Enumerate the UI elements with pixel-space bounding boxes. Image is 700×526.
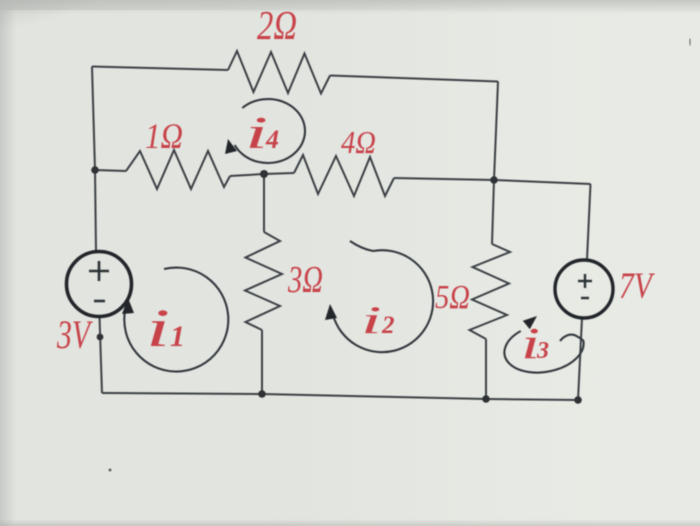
resistor R 3ohm zigzag <box>245 232 282 330</box>
resistor R 5ohm lead top <box>492 180 494 244</box>
wire top-right horizontal <box>330 76 498 82</box>
mesh loop i3 arrowhead <box>523 316 537 329</box>
label i1 <box>146 107 549 367</box>
svg-text:2: 2 <box>381 312 395 339</box>
svg-text:2Ω: 2Ω <box>257 2 297 48</box>
wire bottom <box>102 393 578 400</box>
voltage source V2 7V circle <box>555 260 613 318</box>
resistor R 3ohm lead bottom <box>261 330 263 394</box>
svg-text:i: i <box>146 298 170 358</box>
resistor R 5ohm lead bottom <box>485 339 487 399</box>
mesh loop i1 arrowhead <box>122 298 134 314</box>
mesh loop i3 arc <box>504 331 583 373</box>
speck top-right <box>689 38 691 46</box>
svg-text:i: i <box>361 298 382 341</box>
svg-text:3: 3 <box>536 338 549 364</box>
wire below 3V source <box>100 317 103 394</box>
svg-text:4Ω: 4Ω <box>341 124 376 160</box>
wire middle left stub <box>95 170 126 171</box>
resistor R 2ohm zigzag <box>228 51 330 94</box>
node junction right-middle <box>490 176 498 184</box>
node bottom center <box>258 390 266 398</box>
node junction left-middle <box>91 166 99 174</box>
node junction center-middle <box>260 170 268 178</box>
wire right-top vertical <box>494 82 498 181</box>
V2 minus sign <box>581 297 589 299</box>
node below 3V <box>97 334 104 341</box>
wire middle right <box>394 178 591 184</box>
node bottom right <box>574 396 582 404</box>
wire top-left horizontal <box>92 67 228 71</box>
V2 plus sign <box>578 274 592 298</box>
speck bottom-left <box>108 468 111 471</box>
svg-text:3V: 3V <box>56 312 93 357</box>
wire left vertical <box>92 67 96 252</box>
svg-text:4: 4 <box>265 125 279 154</box>
resistor R 1ohm zigzag <box>126 150 230 189</box>
svg-text:5Ω: 5Ω <box>435 279 470 316</box>
V1 plus sign <box>89 261 109 301</box>
resistor R 4ohm zigzag <box>294 155 394 196</box>
voltage source V1 3V circle <box>67 252 132 317</box>
svg-text:1: 1 <box>170 320 185 353</box>
mesh loop i1 arc <box>124 268 228 372</box>
mesh loop i2 arc <box>333 241 433 352</box>
wire right vertical to 7V <box>587 184 591 260</box>
mesh loop i4 arc <box>235 99 305 163</box>
resistor R 5ohm zigzag <box>470 244 511 339</box>
node bottom 5ohm <box>482 395 490 403</box>
V1 minus sign <box>94 300 105 303</box>
node dots <box>91 166 582 404</box>
mesh loop i4 arrowhead <box>225 139 237 154</box>
wire middle stub to node <box>230 173 294 176</box>
svg-text:1Ω: 1Ω <box>145 116 183 156</box>
mesh loop i2 arrowhead <box>325 304 337 320</box>
wire below 7V source <box>578 318 582 400</box>
svg-text:i: i <box>245 107 268 158</box>
svg-text:3Ω: 3Ω <box>287 259 323 301</box>
resistor R 3ohm lead top <box>263 174 265 232</box>
svg-text:7V: 7V <box>619 266 656 307</box>
